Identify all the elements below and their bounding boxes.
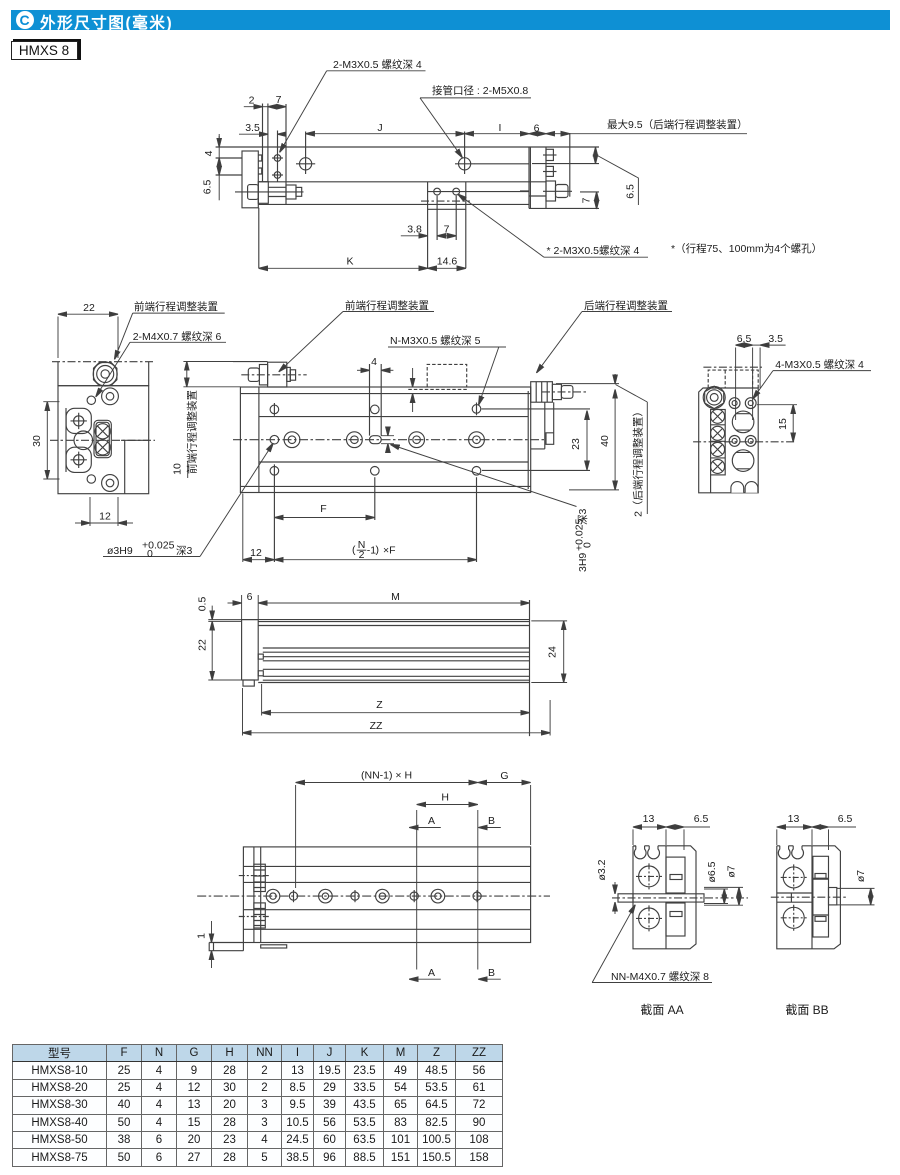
phantom max-extension line — [569, 133, 571, 197]
svg-text:ø6.5: ø6.5 — [706, 861, 718, 882]
svg-text:22: 22 — [197, 639, 209, 651]
M3 holes bottom pair — [729, 436, 740, 447]
svg-text:30: 30 — [31, 435, 43, 447]
sensor holes — [434, 188, 441, 195]
svg-text:2-M3X0.5 螺纹深 4: 2-M3X0.5 螺纹深 4 — [333, 58, 422, 71]
svg-text:×F: ×F — [383, 545, 396, 557]
section BB outline — [777, 846, 841, 949]
svg-text:前端行程调整装置: 前端行程调整装置 — [186, 390, 199, 474]
A/B label underlines — [409, 827, 441, 829]
svg-text:7: 7 — [276, 94, 282, 106]
M3 holes top pair — [729, 398, 740, 409]
dim 40 — [614, 390, 616, 490]
rail groove lines — [258, 648, 529, 683]
port hole left — [300, 158, 312, 170]
label NN-M4X0.7 leader — [592, 982, 712, 984]
svg-text:6.5: 6.5 — [838, 813, 853, 825]
svg-text:4: 4 — [371, 356, 377, 368]
N-M3X0.5 thread holes — [284, 432, 300, 448]
rear adjuster bracket — [531, 402, 554, 449]
left stroke adjuster — [248, 185, 259, 200]
dim I — [465, 133, 529, 135]
plan view centerline — [233, 439, 545, 441]
plan view main body — [240, 387, 530, 493]
BB centerline — [771, 896, 848, 898]
svg-text:N-M3X0.5 螺纹深 5: N-M3X0.5 螺纹深 5 — [390, 334, 481, 347]
dowel hole — [270, 435, 279, 444]
dim 24 — [563, 621, 565, 683]
bottom view body — [243, 847, 530, 943]
svg-text:前端行程调整装置: 前端行程调整装置 — [134, 300, 218, 313]
hidden table section — [708, 370, 758, 388]
corner ring holes — [102, 388, 119, 405]
svg-text:6.5: 6.5 — [737, 333, 752, 345]
AA arches — [634, 846, 666, 859]
svg-text:ø3H9: ø3H9 — [107, 545, 133, 557]
profile left bracket — [242, 620, 259, 680]
svg-text:*（行程75、100mm为4个螺孔）: *（行程75、100mm为4个螺孔） — [671, 242, 822, 255]
svg-text:A: A — [428, 967, 435, 979]
svg-text:2: 2 — [359, 549, 365, 561]
svg-text:7: 7 — [444, 224, 450, 236]
dim 0.5 — [211, 606, 213, 620]
dim (NN-1)xH — [296, 782, 478, 784]
AA o3.2 pin channel — [618, 894, 633, 902]
rod glands — [254, 864, 265, 891]
svg-text:-1: -1 — [367, 545, 376, 557]
dim 22 — [58, 313, 118, 315]
svg-text:6: 6 — [247, 591, 253, 603]
BB inner verticals — [811, 846, 813, 949]
screw hole top — [274, 155, 281, 162]
left view main body — [58, 386, 149, 494]
dim 15 — [792, 405, 794, 442]
BB arches — [777, 846, 812, 859]
svg-text:4: 4 — [203, 150, 215, 156]
right stroke adjusters — [546, 149, 553, 160]
AA dims 13/6.5 — [633, 826, 666, 828]
bottom view centerline — [197, 895, 550, 897]
sensor body hidden outline — [408, 364, 467, 389]
AA inner verticals — [665, 846, 667, 949]
sensor bracket — [428, 182, 466, 268]
label front adjuster (left view) — [133, 312, 225, 314]
BB rod bores — [783, 867, 804, 888]
model label box HMXS 8 — [13, 39, 81, 60]
svg-text:前端行程调整装置: 前端行程调整装置 — [345, 299, 429, 312]
dim 30 — [46, 402, 48, 479]
dim 2 and 7 top — [219, 107, 747, 269]
svg-text:2（后端行程调整装置）: 2（后端行程调整装置） — [632, 406, 645, 517]
dim 6 — [228, 602, 242, 604]
dim 22 profile — [211, 621, 213, 680]
left view top phantom line — [52, 361, 155, 363]
AA centerline — [612, 897, 748, 899]
svg-text:(: ( — [352, 544, 356, 556]
NN leader into AA — [592, 905, 635, 983]
dim (N/2-1)xF — [274, 559, 476, 561]
svg-text:14.6: 14.6 — [437, 256, 458, 268]
bottom view left bracket — [254, 847, 261, 943]
bottom row holes — [270, 467, 279, 476]
AA center channel — [666, 894, 704, 902]
dim 4 / 6.5 left — [218, 134, 220, 200]
svg-text:ø7: ø7 — [726, 865, 738, 877]
dim 10 left — [186, 362, 188, 387]
dim F — [274, 517, 374, 519]
label port size — [420, 97, 531, 99]
svg-text:深3: 深3 — [577, 509, 589, 525]
label 4-M3X0.5 — [773, 370, 871, 372]
svg-text:H: H — [441, 792, 449, 804]
dim K — [259, 267, 428, 269]
mounting foot — [209, 943, 243, 951]
dim M — [258, 602, 529, 604]
dim 12 — [90, 522, 118, 524]
top view body outline — [216, 104, 599, 209]
svg-text:0: 0 — [582, 542, 594, 548]
svg-text:0.5: 0.5 — [197, 597, 209, 612]
svg-text:1: 1 — [196, 933, 208, 939]
dim 1 foot — [211, 921, 213, 943]
dim J — [306, 133, 465, 135]
dim G — [478, 782, 531, 784]
section line B — [477, 810, 479, 970]
dim 6.5 / 3.5 top — [736, 344, 753, 346]
svg-text:22: 22 — [83, 302, 95, 314]
svg-text:后端行程调整装置: 后端行程调整装置 — [584, 299, 668, 312]
front adjuster screw head hex — [94, 363, 117, 386]
svg-text:ZZ: ZZ — [370, 720, 383, 732]
svg-text:Z: Z — [376, 699, 383, 711]
AA o7 dim — [704, 887, 743, 905]
svg-text:F: F — [320, 503, 326, 515]
BB thread pockets — [813, 856, 829, 878]
svg-text:* 2-M3X0.5螺纹深 4: * 2-M3X0.5螺纹深 4 — [547, 244, 640, 257]
label rear adjuster — [582, 311, 672, 313]
front adjuster assembly — [233, 361, 268, 363]
svg-text:3.5: 3.5 — [245, 122, 260, 134]
dim 6 — [529, 133, 546, 135]
left view table section — [58, 362, 149, 386]
svg-text:M: M — [391, 591, 400, 603]
dim ZZ — [243, 732, 551, 734]
rod boss top — [66, 408, 91, 433]
rotated 3H9 label — [574, 509, 594, 572]
profile body top lines — [242, 620, 530, 626]
svg-text:0: 0 — [147, 548, 153, 560]
dim 6.5 right with leader — [595, 147, 597, 154]
dim 12 — [243, 559, 275, 561]
guide bores — [732, 411, 754, 433]
svg-text:深3: 深3 — [176, 545, 192, 557]
svg-text:12: 12 — [99, 511, 111, 523]
left end block — [242, 151, 258, 208]
thread holes rings — [266, 889, 280, 903]
leader dowel hole — [103, 556, 200, 558]
svg-text:40: 40 — [599, 435, 611, 447]
AA o3.2 dim — [614, 882, 616, 894]
svg-text:6: 6 — [534, 123, 540, 135]
right view top phantom — [703, 366, 762, 368]
svg-text:10: 10 — [172, 463, 184, 475]
terminal strip — [711, 410, 726, 475]
svg-text:I: I — [499, 122, 502, 134]
dim 3.8 / 7 — [401, 235, 428, 237]
AA rod bores — [639, 866, 660, 887]
BB dims 13/6.5 — [777, 826, 812, 828]
svg-text:K: K — [346, 256, 353, 268]
data table — [12, 1044, 503, 1167]
svg-text:15: 15 — [777, 418, 789, 430]
svg-text:G: G — [500, 770, 508, 782]
AA thread pockets — [666, 857, 685, 893]
slot width arrows — [381, 436, 394, 444]
svg-text:3.8: 3.8 — [407, 224, 422, 236]
dim 4 slot — [357, 369, 370, 371]
svg-text:3H9: 3H9 — [577, 553, 589, 572]
svg-text:NN-M4X0.7 螺纹深 8: NN-M4X0.7 螺纹深 8 — [611, 970, 709, 983]
svg-text:ø3.2: ø3.2 — [596, 859, 608, 880]
svg-text:J: J — [377, 122, 382, 134]
sensor slot — [370, 364, 382, 436]
svg-text:(NN-1) × H: (NN-1) × H — [361, 770, 412, 782]
sensor rail centerline — [421, 200, 470, 202]
BB o7 dim — [837, 888, 875, 905]
adjuster hex — [705, 386, 724, 408]
leader slot 3H9 — [391, 445, 577, 507]
svg-text:12: 12 — [250, 547, 262, 559]
label front adjuster (plan) — [343, 311, 434, 313]
section line A — [416, 810, 418, 970]
rear adjuster assembly — [531, 382, 553, 403]
rod boss bottom — [66, 447, 91, 472]
rail feet arches — [731, 482, 758, 493]
svg-text:13: 13 — [643, 813, 655, 825]
plain holes — [289, 892, 297, 900]
label N-M3X0.5 — [388, 346, 506, 348]
svg-text:ø7: ø7 — [855, 870, 867, 882]
svg-text:3.5: 3.5 — [768, 333, 783, 345]
dim max 9.5 — [546, 133, 570, 135]
dim 7 right — [596, 192, 598, 209]
connector block — [94, 420, 111, 457]
svg-text:4-M3X0.5 螺纹深 4: 4-M3X0.5 螺纹深 4 — [775, 358, 864, 371]
right view centerline — [693, 441, 796, 443]
hole axis lines — [278, 131, 465, 241]
svg-text:B: B — [488, 815, 495, 827]
section AA outline — [633, 846, 696, 949]
label 2-M4X0.7 — [130, 341, 226, 343]
AA o6.5 dim — [704, 889, 728, 904]
K extension — [258, 208, 260, 268]
label *2-M3X0.5 leader — [458, 194, 544, 257]
corner screw holes plain — [87, 396, 95, 404]
top row holes — [270, 405, 279, 414]
dim 3.5 — [239, 133, 268, 135]
svg-text:接管口径 : 2-M5X0.8: 接管口径 : 2-M5X0.8 — [432, 84, 528, 97]
profile right edge — [529, 600, 531, 736]
svg-text:截面 AA: 截面 AA — [640, 1003, 683, 1017]
center bore — [74, 431, 93, 450]
right end block — [529, 147, 546, 208]
left view centerline — [50, 439, 155, 441]
svg-text:24: 24 — [547, 646, 559, 658]
header blue bar — [11, 10, 890, 30]
svg-text:A: A — [428, 815, 435, 827]
svg-text:6.5: 6.5 — [694, 813, 709, 825]
svg-text:13: 13 — [788, 813, 800, 825]
svg-text:7: 7 — [581, 197, 593, 203]
svg-text:截面 BB: 截面 BB — [785, 1003, 828, 1017]
screw hole bottom — [274, 172, 281, 179]
svg-text:最大9.5（后端行程调整装置）: 最大9.5（后端行程调整装置） — [607, 118, 748, 131]
svg-text:6.5: 6.5 — [202, 180, 214, 195]
main outline — [699, 388, 759, 493]
BB center channel — [777, 893, 812, 902]
port hole right — [459, 158, 471, 170]
label 2-M3X0.5 — [327, 70, 426, 72]
dim H — [417, 804, 478, 806]
dim 23 — [586, 411, 588, 470]
dim Z — [262, 712, 530, 714]
svg-text:B: B — [488, 967, 495, 979]
dim 2 rear adjuster — [614, 374, 616, 384]
X screws — [711, 409, 725, 423]
svg-text:6.5: 6.5 — [625, 184, 637, 199]
svg-text:2: 2 — [249, 95, 255, 107]
dim 14.6 — [428, 267, 466, 269]
svg-text:23: 23 — [570, 438, 582, 450]
svg-text:2-M4X0.7 螺纹深 6: 2-M4X0.7 螺纹深 6 — [133, 330, 222, 343]
